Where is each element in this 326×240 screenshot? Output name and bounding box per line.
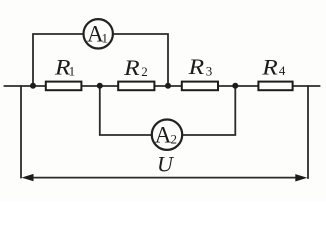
svg-text:R: R (261, 55, 278, 80)
label R1 (54, 54, 75, 79)
resistor R1 (46, 82, 82, 91)
wire A1 branch left riser (33, 34, 83, 86)
resistor R2 (118, 82, 154, 91)
wire left vertical drop (20, 86, 22, 178)
wire A2 branch right return (182, 86, 235, 136)
node junction dot left (A1 tap) (30, 83, 36, 89)
arrowhead left of U line (22, 174, 34, 181)
svg-text:R: R (188, 54, 205, 79)
svg-text:4: 4 (279, 63, 286, 78)
node junction dot between R2 and R3 (165, 83, 171, 89)
wire right vertical drop (307, 86, 309, 178)
svg-text:1: 1 (102, 30, 109, 45)
label R4 (261, 55, 286, 80)
svg-text:3: 3 (206, 64, 213, 79)
label R2 (123, 55, 148, 80)
wire U measurement line (26, 177, 303, 179)
resistor R4 (258, 82, 292, 91)
svg-text:2: 2 (171, 131, 178, 146)
ammeter A2 (152, 120, 182, 150)
svg-text:A: A (155, 122, 172, 147)
node junction dot between R3 and R4 (232, 83, 238, 89)
svg-text:R: R (123, 55, 140, 80)
wire A2 branch left drop (100, 86, 152, 136)
resistor R3 (182, 82, 218, 91)
svg-text:2: 2 (141, 64, 148, 79)
arrowhead right of U line (295, 174, 307, 181)
node junction dot between R1 and R2 (97, 83, 103, 89)
svg-text:1: 1 (69, 63, 76, 78)
label R3 (188, 54, 213, 79)
svg-text:U: U (157, 152, 175, 177)
wire main horizontal bus (5, 85, 320, 87)
wire A1 branch right return (113, 34, 168, 86)
ammeter A1 (84, 19, 113, 48)
